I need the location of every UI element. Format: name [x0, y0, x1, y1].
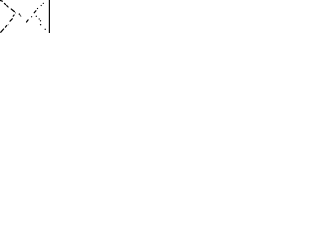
dashed line B (lower middle rising to top-right) — [27, 11, 36, 22]
line B dot 4 — [43, 3, 44, 4]
dashed line A (from top-left corner, going down-right) — [0, 0, 14, 11]
dashed line C (from bottom-left corner, rising to the right) — [1, 15, 14, 32]
dashed line C faint dot — [8, 24, 9, 25]
dotted curve D going down-right — [36, 16, 37, 17]
line B dot 3 — [41, 5, 42, 6]
line B dot 2 — [37, 8, 38, 9]
dashed line A faint end dot — [15, 12, 16, 13]
right border line — [49, 0, 50, 33]
isolated short dash node — [19, 13, 20, 14]
line B dot 1 — [31, 16, 32, 17]
